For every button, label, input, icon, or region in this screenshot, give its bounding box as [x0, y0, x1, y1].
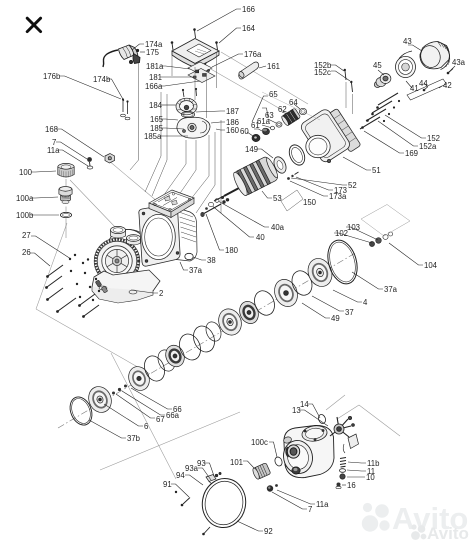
impeller dark [236, 299, 261, 327]
svg-text:61: 61 [251, 121, 260, 130]
svg-text:64: 64 [289, 98, 298, 107]
svg-text:37: 37 [345, 308, 354, 317]
stator 51 [299, 107, 361, 164]
diffuser [288, 268, 315, 298]
svg-text:65: 65 [269, 90, 278, 99]
tank left port [283, 436, 293, 444]
screw 44 [423, 89, 426, 92]
svg-text:66a: 66a [166, 411, 180, 420]
plug 7 bottom [267, 485, 273, 491]
slinger 149 [272, 155, 289, 175]
svg-text:43a: 43a [452, 58, 466, 67]
diffuser [141, 353, 168, 384]
svg-text:168: 168 [45, 125, 58, 134]
diffuser small [203, 320, 223, 344]
impeller [215, 305, 245, 338]
impeller [125, 363, 153, 393]
svg-text:Avito: Avito [427, 524, 469, 540]
svg-text:160: 160 [226, 126, 240, 135]
svg-text:174b: 174b [93, 75, 111, 84]
fan 184 [176, 98, 197, 115]
diffuser [190, 323, 219, 355]
motor body fins [176, 208, 197, 261]
svg-text:102: 102 [335, 229, 348, 238]
O-ring 37b [66, 394, 96, 429]
diffuser [155, 347, 178, 373]
cover plate 164 [172, 39, 219, 68]
svg-text:150: 150 [303, 198, 317, 207]
close X icon [27, 18, 40, 31]
svg-text:180: 180 [225, 246, 239, 255]
plug axis dashes [65, 179, 67, 238]
svg-text:169: 169 [405, 149, 418, 158]
svg-text:40: 40 [256, 233, 265, 242]
top ports [111, 226, 141, 245]
svg-text:149: 149 [245, 145, 258, 154]
svg-text:4: 4 [363, 298, 368, 307]
svg-text:45: 45 [373, 61, 382, 70]
svg-text:187: 187 [226, 107, 239, 116]
screws 152b 152c [345, 71, 353, 92]
rotor 53 [214, 155, 280, 201]
screws 176b/174b [123, 100, 128, 114]
exploded box for nuts 102/103 [361, 205, 410, 237]
axis line impeller stack [58, 252, 357, 428]
washers 66 66a 67 [112, 381, 133, 394]
svg-text:103: 103 [347, 223, 360, 232]
svg-text:11a: 11a [316, 500, 329, 509]
plug 101 [252, 463, 271, 480]
svg-text:152c: 152c [314, 68, 331, 77]
impeller [304, 255, 336, 290]
spring 11b [340, 458, 346, 468]
svg-text:16: 16 [347, 481, 356, 490]
svg-text:166: 166 [242, 5, 255, 14]
group bracket 150 [281, 190, 303, 211]
svg-text:62: 62 [278, 105, 287, 114]
spoked wheel [105, 249, 128, 272]
svg-text:37a: 37a [384, 285, 398, 294]
washer 52 pin 173 [287, 177, 290, 180]
fan cover 43 [418, 42, 450, 70]
svg-text:93a: 93a [185, 464, 199, 473]
svg-text:176b: 176b [43, 72, 61, 81]
svg-text:166a: 166a [145, 82, 163, 91]
svg-text:37b: 37b [127, 434, 141, 443]
ejector 13/14 [317, 414, 358, 453]
washer 100b [60, 212, 71, 217]
diffuser [251, 288, 278, 318]
impeller dark [163, 342, 188, 369]
clamp lugs [206, 472, 221, 484]
filler cap 100 [58, 163, 74, 177]
svg-text:100c: 100c [251, 438, 268, 447]
tank body [280, 425, 334, 477]
svg-text:60: 60 [240, 127, 249, 136]
svg-text:2: 2 [159, 289, 163, 298]
nuts 102 103 104 [369, 232, 392, 247]
poppet 10 [340, 474, 345, 479]
svg-text:161: 161 [267, 62, 280, 71]
svg-text:26: 26 [22, 248, 31, 257]
shaft washers 40/40a [206, 196, 224, 209]
ribbed ring [96, 240, 139, 283]
diffuser [176, 331, 205, 363]
screw 16 [337, 483, 341, 487]
nut 168 [105, 154, 115, 164]
svg-text:175: 175 [146, 48, 160, 57]
base flange [92, 270, 160, 303]
svg-text:7: 7 [308, 505, 312, 514]
svg-text:40a: 40a [271, 223, 285, 232]
svg-text:6: 6 [144, 422, 148, 431]
svg-text:42: 42 [443, 81, 452, 90]
screw 43a [449, 69, 454, 73]
tie bolts 152 [360, 93, 398, 129]
bearing ring [286, 142, 307, 167]
svg-text:181: 181 [149, 73, 162, 82]
svg-text:51: 51 [372, 166, 381, 175]
svg-text:53: 53 [273, 194, 282, 203]
svg-text:92: 92 [264, 527, 273, 536]
svg-text:41: 41 [410, 84, 419, 93]
svg-text:49: 49 [331, 314, 340, 323]
tank drain [292, 467, 300, 474]
svg-text:152a: 152a [419, 142, 437, 151]
svg-text:38: 38 [207, 256, 216, 265]
svg-text:101: 101 [230, 458, 243, 467]
fan 41 [396, 51, 416, 78]
clamp ring 92 [199, 475, 249, 530]
svg-text:43: 43 [403, 37, 412, 46]
screw 7 washer 11a [87, 157, 92, 162]
svg-text:176a: 176a [244, 50, 262, 59]
svg-text:93: 93 [197, 459, 206, 468]
svg-text:14: 14 [300, 400, 309, 409]
impeller [271, 276, 302, 310]
vertical leader lines [130, 52, 221, 213]
Avito watermark [362, 501, 469, 536]
washer 11 [340, 469, 346, 473]
screw 180 part [201, 199, 229, 217]
svg-text:52: 52 [348, 181, 357, 190]
capacitor 161 [238, 62, 259, 79]
O-ring 37a [323, 237, 362, 288]
svg-text:44: 44 [419, 79, 428, 88]
O-ring 187 [181, 111, 194, 117]
impeller 6 [85, 383, 115, 416]
svg-text:181a: 181a [146, 62, 164, 71]
svg-text:10: 10 [366, 473, 375, 482]
svg-text:11a: 11a [47, 146, 60, 155]
construction lines [36, 52, 400, 479]
tank front port [286, 445, 300, 458]
svg-text:67: 67 [156, 415, 165, 424]
svg-text:173a: 173a [329, 192, 347, 201]
O-ring 100c [274, 456, 284, 467]
svg-text:91: 91 [163, 480, 172, 489]
base clips [95, 280, 108, 293]
screws above fan [183, 90, 197, 97]
svg-text:100a: 100a [16, 194, 34, 203]
svg-text:100b: 100b [16, 211, 34, 220]
clamp 42 [407, 79, 447, 100]
washer 38 [185, 253, 193, 259]
screws 166 [172, 30, 218, 72]
svg-text:100: 100 [19, 168, 33, 177]
terminal box bottom [149, 190, 194, 218]
seal parts 60-65 [262, 92, 320, 120]
svg-text:94: 94 [176, 471, 185, 480]
svg-text:185a: 185a [144, 132, 162, 141]
motor front plate [139, 204, 180, 266]
svg-text:104: 104 [424, 261, 438, 270]
terminal board 181 stack [188, 62, 215, 83]
seal housing 185 [177, 117, 210, 138]
screws 91 [183, 498, 190, 505]
svg-text:37a: 37a [189, 266, 203, 275]
svg-text:164: 164 [242, 24, 256, 33]
rear ring arc [109, 229, 151, 247]
svg-text:165: 165 [150, 115, 164, 124]
svg-text:184: 184 [149, 101, 163, 110]
tank top flange [301, 424, 328, 443]
svg-text:13: 13 [292, 406, 301, 415]
fan hub 45 [374, 74, 391, 88]
cable gland 174a [103, 45, 140, 67]
plug 100a [59, 187, 72, 204]
svg-text:27: 27 [22, 231, 31, 240]
